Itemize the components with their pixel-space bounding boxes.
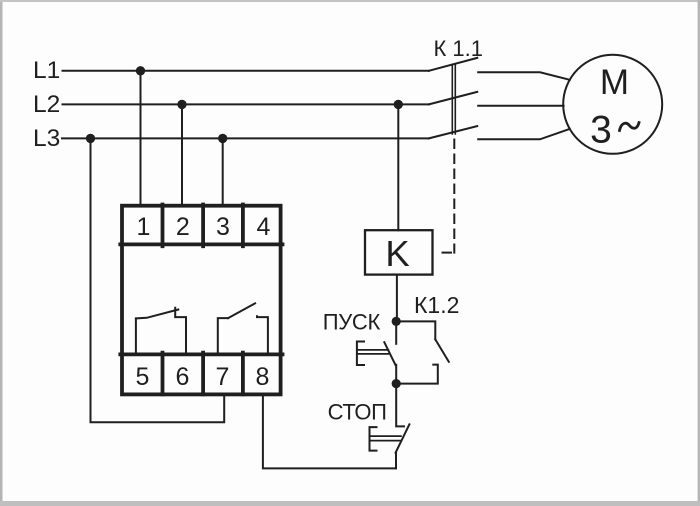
svg-text:M: M [600,63,629,102]
motor M 3~ [563,55,662,154]
node L3/terminal3 [218,134,227,143]
wire L2 bus [63,103,429,105]
relay contact 5-6 (closed) [136,308,186,353]
svg-text:K: K [385,233,409,274]
wire L3 to terminal 3 [222,138,224,206]
auxiliary contact K1.2 (NO) [396,321,449,383]
svg-text:6: 6 [176,363,190,391]
node L1/terminal1 [136,66,145,75]
svg-text:1: 1 [137,213,151,241]
svg-text:СТОП: СТОП [328,400,387,425]
wire stop button to terminal 8 [263,396,396,468]
wire L1 to terminal 1 [140,71,142,207]
wire K1.1 to motor phase 2 [478,105,563,107]
wire L2 to terminal 2 [181,104,183,206]
wire coil K to control junction [396,275,398,322]
node L2 coil branch [394,100,403,109]
node L2/terminal2 [177,100,186,109]
svg-text:5: 5 [136,363,150,391]
wire L3 bus [62,137,429,139]
pushbutton STOP (NC) [370,384,410,469]
wire K1.1 to motor phase 1 [478,72,570,80]
svg-text:К1.2: К1.2 [414,292,459,318]
wire L3 branch to terminal 7 [91,138,225,422]
svg-text:4: 4 [257,213,271,241]
contactor contact K1.1 [429,58,477,138]
node stop-branch top [392,379,401,388]
svg-text:8: 8 [256,363,270,391]
wire L2 to coil K [397,104,399,230]
svg-text:2: 2 [176,213,190,241]
pushbutton START (NO) [357,321,396,383]
svg-text:3: 3 [590,109,612,152]
svg-text:К 1.1: К 1.1 [434,36,484,61]
node start-branch top [392,317,401,326]
wire K1.1 to motor phase 3 [478,129,570,139]
svg-text:3: 3 [216,213,230,241]
tilde of 3~ [620,123,640,131]
coil K box [365,230,433,274]
svg-text:L1: L1 [33,57,60,84]
dashed link horizontal dash [443,252,452,254]
svg-text:L2: L2 [33,91,60,118]
svg-text:L3: L3 [33,125,60,152]
svg-text:ПУСК: ПУСК [323,310,381,335]
relay contact 7-8 (open) [218,303,268,353]
relay module case [120,205,282,395]
svg-text:7: 7 [216,363,230,391]
wire L1 bus [63,70,429,72]
node L3 left branch [86,134,95,143]
dashed mechanical link K1.1 to K [453,140,455,253]
